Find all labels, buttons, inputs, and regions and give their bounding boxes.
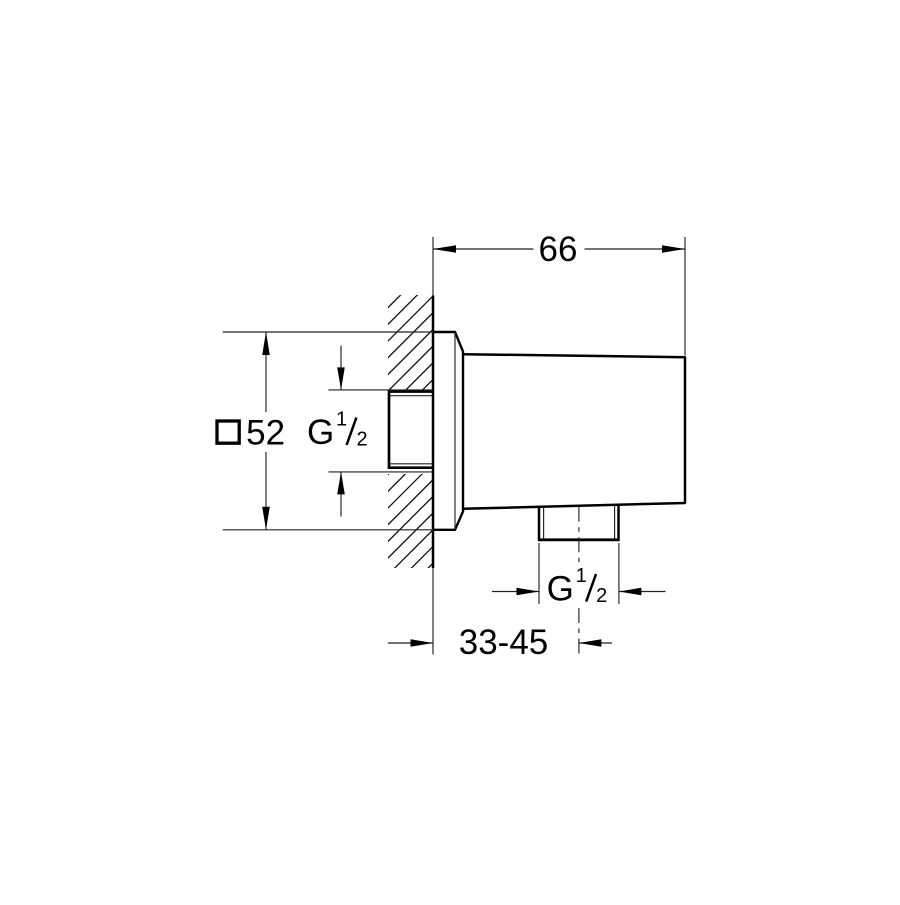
spout thread inner lines — [544, 505, 615, 539]
arrowhead 33-45 left — [411, 639, 434, 647]
arrowhead 66 left — [433, 245, 456, 253]
svg-text:G: G — [307, 413, 334, 452]
arrowhead 66 right — [662, 245, 685, 253]
svg-text:2: 2 — [357, 429, 368, 451]
G 1/2 label (spout) — [547, 565, 608, 609]
svg-text:1: 1 — [576, 565, 587, 587]
svg-text:52: 52 — [246, 414, 285, 453]
flange crease line — [454, 333, 456, 529]
flange outline — [433, 332, 463, 530]
dimension square-52 — [223, 332, 433, 530]
thread dimension G1/2 (wall inlet) — [329, 346, 434, 517]
arrowhead spout-G12 right — [619, 588, 642, 596]
svg-text:2: 2 — [596, 585, 607, 607]
svg-text:33-45: 33-45 — [459, 623, 549, 662]
dimension 66 — [433, 237, 685, 356]
wall face line (thick portion) — [432, 296, 435, 569]
thread inner line top — [390, 395, 433, 397]
spout outlet — [539, 505, 619, 539]
dimension 33-45 — [388, 642, 612, 644]
arrowhead thread bottom — [337, 472, 345, 495]
svg-text:1: 1 — [336, 409, 347, 431]
wall line thin lower portion (extension for 33-45) — [432, 568, 434, 655]
body cone outline — [463, 354, 685, 509]
svg-text:G: G — [547, 570, 574, 609]
spout bottom — [538, 538, 620, 541]
arrowhead 33-45 right — [579, 639, 602, 647]
in-wall union box G1/2 inlet — [389, 392, 433, 468]
arrowhead 52 top — [262, 332, 270, 355]
centerline of spout (dashed) — [578, 507, 580, 655]
thread inner line bottom — [390, 463, 433, 465]
svg-text:66: 66 — [539, 230, 578, 269]
arrowhead 52 bottom — [262, 507, 270, 530]
dimension G1/2 (spout) — [492, 543, 666, 604]
G 1/2 label (wall inlet) — [307, 409, 368, 453]
arrowhead spout-G12 left — [517, 588, 540, 596]
arrowhead thread top — [337, 367, 345, 390]
square symbol — [217, 421, 239, 443]
extension line 66 left (above wall) — [432, 237, 434, 296]
wall hatching — [372, 223, 472, 674]
